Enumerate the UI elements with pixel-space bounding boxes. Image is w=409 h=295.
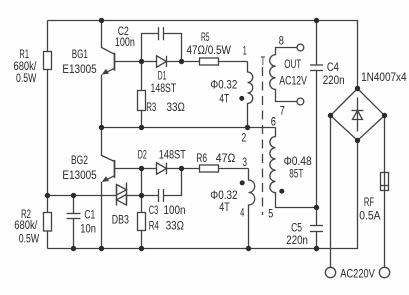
wire AC left (bridge to terminal) (330, 116, 332, 268)
terminal AC220V right (379, 267, 389, 277)
wire DB3 to node A (BG2 base network) (127, 195, 142, 197)
svg-text:10n: 10n (80, 222, 96, 236)
svg-text:33Ω: 33Ω (167, 100, 185, 114)
svg-text:0.5W: 0.5W (19, 231, 40, 245)
wire AC right (bridge to fuse to terminal) (384, 116, 386, 268)
svg-text:3: 3 (243, 155, 248, 169)
transformer primary winding 6-5 (85T) (270, 128, 317, 208)
transformer core (262, 67, 264, 215)
svg-text:148ST: 148ST (151, 81, 177, 95)
svg-text:1: 1 (243, 44, 247, 58)
svg-text:C3: C3 (149, 203, 159, 217)
svg-text:T: T (261, 54, 266, 68)
svg-text:148ST: 148ST (159, 148, 186, 162)
transistor BG1 (102, 21, 115, 55)
svg-text:DB3: DB3 (112, 212, 129, 226)
svg-text:5: 5 (268, 207, 273, 221)
svg-text:0.5A: 0.5A (359, 209, 381, 223)
diac DB3 (116, 185, 118, 206)
diode D2 (142, 168, 157, 170)
svg-text:RF: RF (364, 195, 374, 209)
svg-text:680k/: 680k/ (14, 218, 37, 232)
capacitor C4 (316, 21, 318, 66)
terminal pin 7 (297, 98, 304, 105)
svg-text:6: 6 (271, 114, 276, 128)
resistor R5 (200, 58, 219, 65)
capacitor C3 (142, 195, 159, 197)
svg-text:C1: C1 (84, 208, 95, 222)
transformer secondary winding 8-7 (output) (270, 48, 297, 102)
svg-text:2: 2 (241, 131, 246, 145)
wire top rail (DC+) from R1 top to bridge top (48, 21, 358, 89)
svg-text:47Ω/0.5W: 47Ω/0.5W (187, 43, 232, 57)
svg-text:R3: R3 (146, 100, 156, 114)
svg-text:E13005: E13005 (62, 62, 96, 76)
terminal AC220V left (325, 267, 335, 277)
resistor R4 (141, 196, 143, 213)
svg-text:4T: 4T (219, 200, 230, 214)
wire mid rail (half-bridge midpoint, node 2-6) into primary top (102, 127, 276, 129)
resistor R6 (200, 165, 219, 172)
svg-text:R4: R4 (149, 219, 159, 233)
svg-text:47Ω: 47Ω (216, 151, 236, 165)
svg-text:C4: C4 (327, 60, 339, 74)
transistor BG2 (102, 128, 115, 162)
svg-text:85T: 85T (289, 167, 303, 181)
svg-text:33Ω: 33Ω (166, 219, 184, 233)
svg-text:220n: 220n (286, 233, 308, 247)
transformer winding 3-4 (feedback, bottom) (249, 169, 255, 249)
svg-text:AC12V: AC12V (279, 73, 307, 87)
svg-text:AC220V: AC220V (340, 266, 375, 280)
svg-text:BG2: BG2 (71, 153, 88, 167)
capacitor C5 (316, 208, 318, 226)
resistor R2 (47, 196, 49, 213)
svg-text:220n: 220n (323, 73, 345, 87)
polarity dot primary (279, 189, 284, 194)
transformer winding 1-2 (feedback, top) (248, 62, 253, 128)
wire trigger line R1/R2 junction to DB3 (48, 195, 117, 197)
svg-text:BG1: BG1 (72, 47, 88, 61)
fuse RF (381, 173, 389, 191)
wire bottom rail (DC-) from R2 bottom to bridge bottom (48, 141, 358, 249)
junction dots (99, 18, 104, 23)
polarity dot winding 1-2 (239, 96, 244, 101)
diode D1 (142, 61, 157, 63)
svg-text:4T: 4T (219, 92, 229, 106)
svg-text:100n: 100n (164, 203, 186, 217)
polarity dot winding 3-4 (240, 180, 245, 185)
svg-text:E13005: E13005 (62, 168, 96, 182)
svg-text:D2: D2 (138, 148, 147, 162)
svg-text:R6: R6 (196, 151, 207, 165)
capacitor C2 (142, 34, 159, 62)
svg-text:1N4007x4: 1N4007x4 (361, 70, 407, 84)
wire node A vertical (BG2 base to trigger node) (141, 169, 143, 196)
svg-text:Φ0.32: Φ0.32 (210, 78, 237, 92)
svg-text:R5: R5 (201, 30, 210, 44)
capacitor C1 (73, 196, 75, 214)
svg-text:4: 4 (240, 206, 244, 220)
resistor R3 (141, 62, 143, 91)
svg-text:8: 8 (279, 34, 284, 48)
terminal pin 8 (297, 44, 304, 51)
svg-text:OUT: OUT (284, 57, 301, 71)
bridge rectifier 1N4007x4 (331, 89, 385, 141)
resistor R1 (47, 21, 49, 52)
svg-text:100n: 100n (115, 35, 135, 49)
svg-text:7: 7 (280, 104, 285, 118)
svg-text:0.5W: 0.5W (16, 71, 37, 85)
